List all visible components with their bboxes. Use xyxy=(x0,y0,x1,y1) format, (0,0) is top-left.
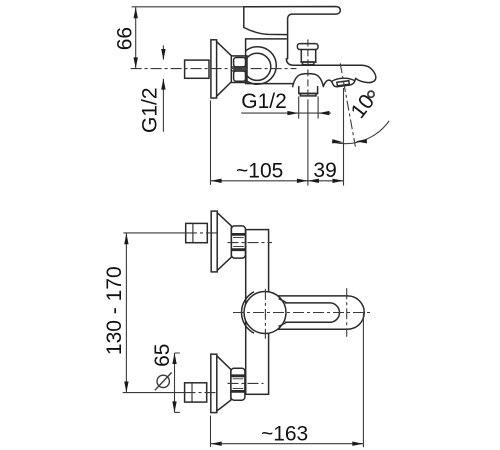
svg-text:130 - 170: 130 - 170 xyxy=(103,266,126,355)
svg-text:~105: ~105 xyxy=(236,160,283,183)
svg-text:~163: ~163 xyxy=(261,422,308,445)
svg-text:65: 65 xyxy=(151,344,174,367)
svg-text:G1/2: G1/2 xyxy=(139,87,162,133)
svg-text:39: 39 xyxy=(313,159,336,182)
svg-text:66: 66 xyxy=(114,27,137,50)
svg-text:G1/2: G1/2 xyxy=(241,90,287,113)
